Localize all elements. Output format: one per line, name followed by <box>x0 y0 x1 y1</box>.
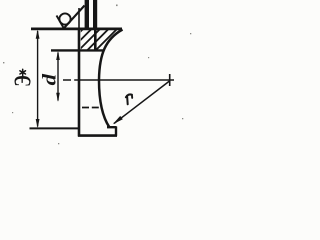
hatch lines of section <box>59 27 128 53</box>
hidden aperture dashed line <box>82 107 101 109</box>
bottom extension line for Э <box>30 127 79 129</box>
arrowhead d bottom <box>56 93 60 102</box>
center cross tick <box>169 74 171 86</box>
arrowhead d top <box>56 51 60 60</box>
dimension line for diameter Э <box>37 31 39 127</box>
roughness symbol tail <box>64 6 85 29</box>
optical axis centerline <box>63 79 174 81</box>
thick bar b right lower part <box>94 29 97 51</box>
lens top edge / top extension line <box>31 28 122 31</box>
dimension line for d <box>57 53 59 101</box>
scan speckles <box>3 5 191 145</box>
svg-text:Э: Э <box>11 75 36 86</box>
arrowhead Э bottom <box>36 119 40 128</box>
roughness symbol circle <box>59 13 70 24</box>
thick bar b left <box>85 0 89 29</box>
roughness symbol left arm <box>57 16 64 29</box>
lens bottom edge <box>78 134 117 137</box>
svg-text:d: d <box>38 73 60 85</box>
label r handwritten <box>126 94 132 104</box>
lens right rim edge <box>115 127 117 136</box>
rim ledge segment <box>107 126 117 128</box>
radius dimension line r <box>114 81 170 124</box>
concave surface arc <box>99 30 123 128</box>
arrowhead r <box>113 116 123 124</box>
asterisk of Э* <box>20 69 26 75</box>
extension line above lens edge <box>78 8 80 29</box>
d top extension line / hatch bottom <box>51 49 104 51</box>
thick bar b right <box>93 0 97 29</box>
arrowhead Э top <box>36 29 40 38</box>
lens left flat edge <box>78 29 81 137</box>
